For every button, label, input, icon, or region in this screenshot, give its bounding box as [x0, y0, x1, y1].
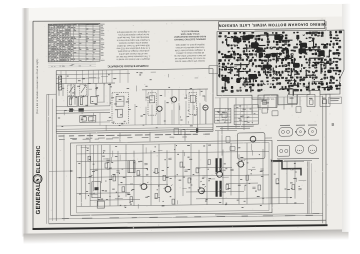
upper section extra stubs	[98, 101, 105, 103]
page border top rule	[33, 17, 325, 24]
audio output shield box	[237, 133, 265, 159]
upper schematic left rule	[55, 71, 57, 134]
heavy speaker trace	[271, 160, 301, 175]
left margin wire	[52, 99, 54, 221]
transistor Q9	[238, 161, 244, 167]
wire	[77, 203, 304, 206]
long pointer wire to switch	[49, 170, 72, 172]
transistor Q5 output	[165, 186, 171, 192]
basing diagram row 1: power output package	[279, 128, 293, 137]
basing row1 caption	[277, 140, 319, 141]
table row rules	[48, 24, 100, 27]
upper section extra rules	[56, 73, 130, 76]
svg-text:B: B	[332, 122, 335, 127]
basing diagram row 2: transistor bottom view 2	[308, 145, 316, 154]
resistor	[196, 168, 199, 173]
top component bus wire	[56, 82, 115, 85]
page border left rule	[32, 21, 34, 230]
wire	[77, 160, 128, 163]
semiconductor complement table A	[215, 108, 231, 123]
upper schematic section top rule	[56, 69, 213, 71]
semiconductor complement table B	[234, 105, 258, 125]
wire	[125, 144, 127, 196]
capacitor	[202, 175, 205, 177]
schematic border left double rule	[46, 94, 48, 224]
table header row	[49, 24, 99, 26]
wire	[262, 149, 264, 204]
PCB bottom tabs and labels	[258, 95, 277, 108]
page border bottom thick rule	[33, 225, 328, 229]
wire	[103, 83, 105, 102]
wire	[62, 84, 64, 96]
mixer coil box	[79, 96, 88, 106]
volume control wire from upper section	[55, 134, 57, 221]
junction boxes below PCB	[222, 113, 227, 118]
resistor	[292, 185, 295, 190]
wire	[190, 144, 192, 205]
wire	[80, 145, 82, 206]
battery wires right side	[307, 161, 309, 213]
IF transformer T1 (dashed can)	[112, 93, 129, 124]
component value labels upper section	[85, 104, 87, 107]
schematic border right outer	[325, 21, 327, 226]
oscillator coil L3 (solid core)	[79, 108, 84, 111]
scan noise	[262, 91, 265, 94]
capacitor	[230, 168, 233, 170]
resistor	[188, 178, 191, 183]
wire	[230, 143, 232, 195]
transistor Q3 2nd IF	[203, 105, 208, 110]
output transformer T5 core bars	[216, 158, 218, 172]
wire	[77, 192, 130, 195]
voltage note line (upside down)	[58, 135, 64, 138]
wire	[259, 97, 261, 110]
resistor	[155, 193, 158, 198]
tuning capacitor C1B (dashed gang box)	[80, 85, 87, 96]
lower section outer box	[71, 140, 272, 215]
wire	[227, 98, 229, 130]
wire	[145, 107, 147, 125]
resistor	[130, 197, 133, 202]
gap crossing wires	[89, 133, 91, 142]
transistor Q6 output	[199, 188, 205, 194]
wire	[270, 159, 272, 204]
wire	[90, 167, 148, 170]
schematic border top-left corner stub	[47, 93, 56, 95]
wire	[178, 103, 180, 125]
capacitor	[116, 170, 119, 172]
wire	[196, 166, 232, 168]
wire	[185, 101, 187, 124]
resistor	[246, 175, 249, 180]
wire	[77, 151, 269, 154]
resistor	[276, 179, 279, 184]
wire	[238, 154, 240, 204]
capacitor	[290, 168, 293, 170]
wire	[158, 144, 160, 196]
coupling wires below PCB	[215, 97, 323, 98]
component labels lower section	[89, 158, 91, 161]
wire	[299, 97, 301, 106]
wire	[294, 161, 296, 199]
wire	[87, 83, 89, 96]
transistor Q1 converter	[157, 106, 162, 111]
transistor lead marks	[140, 185, 142, 186]
wire	[74, 83, 76, 104]
wires joining lower box	[215, 129, 237, 131]
IF stage drop wires	[145, 90, 147, 101]
basing diagram row 2: transistor bottom view 1	[295, 145, 303, 154]
wire	[171, 110, 173, 125]
resistor	[88, 156, 91, 161]
resistor	[122, 187, 125, 192]
speaker plug label (right margin)	[329, 97, 342, 104]
wire	[283, 97, 285, 110]
wire	[151, 105, 153, 125]
upper schematic right rule	[212, 69, 214, 132]
resistor	[226, 184, 229, 189]
capacitor	[168, 157, 171, 159]
wire	[89, 145, 91, 206]
wire	[150, 150, 152, 205]
capacitor	[298, 187, 301, 189]
resistor	[163, 175, 166, 180]
wire	[70, 84, 72, 100]
wire	[205, 109, 207, 124]
parts list table frame	[48, 23, 100, 61]
capacitor	[94, 168, 97, 170]
wire	[58, 84, 60, 96]
detector stage parts (gap band)	[174, 128, 179, 134]
schematic bottom wire	[215, 214, 323, 215]
wire	[100, 145, 102, 183]
wire	[157, 111, 159, 124]
wire	[198, 150, 200, 188]
resistor R1	[91, 97, 98, 104]
wire	[275, 97, 277, 108]
wire	[117, 151, 119, 206]
schematic border right inner	[322, 96, 324, 224]
driver transformer T4	[128, 161, 135, 173]
basing diagrams caption	[277, 158, 319, 159]
wire	[286, 161, 288, 204]
small boxes below PCB	[272, 111, 278, 116]
capacitor	[184, 169, 187, 171]
resistor	[172, 199, 175, 204]
resistor	[113, 176, 116, 181]
paper left edge shadow	[22, 8, 30, 237]
wire	[109, 83, 111, 106]
thermistor block	[80, 115, 96, 122]
lower section inner rule	[77, 143, 269, 213]
tuning capacitor C1A (dashed gang box)	[68, 85, 75, 96]
wire	[174, 144, 176, 205]
transistor Q8	[250, 136, 256, 142]
wire	[186, 190, 244, 193]
sub-section divider wire	[56, 112, 110, 115]
wire	[118, 183, 168, 186]
wire	[164, 100, 166, 124]
wire	[246, 143, 248, 204]
wire	[192, 101, 194, 125]
GE monogram medallion	[33, 174, 42, 183]
transistor Q4 audio driver	[141, 184, 147, 190]
resistor	[137, 171, 140, 176]
wire	[182, 150, 184, 196]
basing row 1 labels	[280, 124, 290, 127]
IF bus wire	[142, 88, 208, 91]
IF transformer T2 (dashed can)	[148, 93, 156, 116]
battery tick	[312, 213, 319, 215]
wire	[97, 145, 99, 206]
wire	[267, 97, 269, 110]
wire	[206, 143, 208, 204]
wire	[85, 145, 87, 199]
oscillator coil L2 (solid core)	[69, 108, 73, 111]
wire	[226, 182, 258, 184]
wire	[272, 160, 304, 162]
transistor Q2 1st IF	[171, 97, 176, 102]
vertical drop wires from top rule	[60, 71, 62, 84]
resistor	[180, 162, 183, 167]
wire	[166, 150, 168, 186]
wires left of shield box	[217, 131, 219, 159]
short wire stubs lower section	[115, 198, 123, 200]
capacitor	[106, 158, 109, 160]
basing diagram row 2: square package	[278, 146, 290, 157]
resistor	[105, 163, 108, 168]
chart caption lines	[216, 126, 254, 127]
upper section wires	[56, 124, 213, 126]
wire	[291, 97, 293, 107]
wire	[93, 145, 95, 191]
wire junction dots	[88, 195, 89, 196]
bottom caption labels row	[62, 217, 69, 220]
wire	[251, 97, 253, 114]
capacitor	[144, 162, 147, 164]
mid gap note text	[59, 138, 65, 141]
scan tint over printed area	[33, 17, 326, 229]
resistor	[208, 160, 211, 165]
tab text marks	[261, 99, 266, 102]
capacitor	[252, 186, 255, 188]
wire	[199, 103, 201, 124]
paper bottom shadow	[24, 229, 349, 244]
electrolytic capacitor C20	[92, 182, 101, 198]
table column rules	[50, 24, 52, 62]
wire	[235, 98, 237, 128]
wire	[243, 98, 245, 131]
IF transformer T3 (dashed can)	[189, 92, 196, 114]
loop antenna L1	[59, 76, 62, 90]
basing diagram row 1: transistor bottom view 2	[308, 127, 316, 136]
upper schematic bottom double rule	[56, 129, 213, 131]
table lower extension rows	[48, 62, 96, 65]
right row-label mini column	[101, 23, 105, 26]
wire	[133, 151, 135, 206]
wire	[222, 150, 224, 205]
transistor Q7	[217, 171, 223, 177]
resistor	[258, 185, 261, 190]
wire	[142, 144, 144, 183]
wire	[196, 198, 290, 199]
PCB wiring diagram (bottom view, dense foil traces)	[217, 30, 344, 106]
wire	[219, 98, 221, 116]
wiring diagram caption box	[219, 20, 325, 30]
wire	[95, 83, 97, 97]
paper top margin highlight	[24, 4, 349, 21]
wire	[77, 175, 269, 178]
wire	[278, 159, 280, 204]
schematic border bottom rules	[49, 220, 326, 224]
basing diagram row 1: transistor bottom view 1	[296, 127, 304, 136]
resistor	[155, 168, 158, 173]
RF coil box	[68, 96, 77, 106]
capacitor	[260, 168, 263, 170]
wire	[90, 199, 140, 202]
wire	[109, 145, 111, 206]
paper right edge shadow	[342, 4, 351, 232]
capacitor C21	[97, 201, 104, 208]
table cell entries	[48, 23, 51, 26]
extra component labels near output stage	[123, 176, 126, 179]
